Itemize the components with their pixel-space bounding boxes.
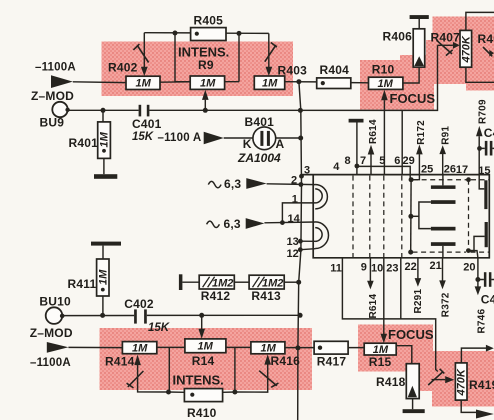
resistor R401 1M xyxy=(98,110,111,174)
svg-text:470K: 470K xyxy=(460,35,472,63)
svg-text:R402: R402 xyxy=(108,61,138,75)
wire R405 top link xyxy=(144,32,268,35)
svg-text:R406: R406 xyxy=(383,30,413,44)
wire R416 to R417 xyxy=(285,347,314,349)
electrode dashed columns xyxy=(353,176,402,257)
node pin 3 entry xyxy=(299,174,304,179)
potentiometer R10 focus xyxy=(369,77,403,174)
node B401 anode xyxy=(298,136,303,141)
wire R404 to R10 xyxy=(351,82,369,84)
node heater 6,3 arrow 1 xyxy=(208,178,266,189)
svg-text:R413: R413 xyxy=(251,289,281,303)
svg-text:1M2: 1M2 xyxy=(212,278,233,290)
wire main vertical xyxy=(298,82,302,420)
svg-text:INTENS.: INTENS. xyxy=(173,372,224,387)
svg-text:C4: C4 xyxy=(481,292,494,306)
svg-text:14: 14 xyxy=(288,213,301,225)
svg-text:R15: R15 xyxy=(369,355,392,369)
electrode bar pin 15 xyxy=(479,175,487,210)
node pin1-14 junction xyxy=(280,220,285,225)
svg-text:R407: R407 xyxy=(431,31,461,45)
svg-text:R401: R401 xyxy=(69,136,99,150)
svg-text:R410: R410 xyxy=(187,406,217,420)
svg-text:R614: R614 xyxy=(368,119,379,144)
net R172 arrow pin 25 xyxy=(411,145,423,180)
svg-text:13: 13 xyxy=(287,236,299,248)
terminal bar above R411 xyxy=(91,242,121,259)
resistor R416 (trimmer 1M) xyxy=(235,342,285,392)
svg-text:21: 21 xyxy=(430,260,442,272)
wire R402 to R9 xyxy=(160,81,190,83)
node R403 junction xyxy=(296,79,301,84)
terminal bar pin 8 xyxy=(349,119,364,175)
svg-text:R9: R9 xyxy=(198,58,214,72)
svg-text:1M: 1M xyxy=(97,269,109,285)
svg-text:R417: R417 xyxy=(317,355,347,369)
connector BU9 xyxy=(52,102,70,117)
svg-text:11: 11 xyxy=(330,262,342,274)
svg-text:Z–MOD: Z–MOD xyxy=(31,89,74,103)
wire pin 20 exit xyxy=(468,251,478,258)
svg-text:R709: R709 xyxy=(477,99,488,124)
wire R10 right to R406 xyxy=(403,67,419,83)
svg-text:1M: 1M xyxy=(136,78,152,90)
node -1100A bottom arrow xyxy=(47,342,69,353)
shield dashed vertical pin 17 xyxy=(468,180,470,251)
svg-text:15K: 15K xyxy=(132,131,154,143)
resistor R414 (trimmer 1M) xyxy=(122,342,168,392)
svg-text:BU9: BU9 xyxy=(40,116,65,130)
capacitor C401 xyxy=(139,105,150,117)
resistor R403 (trimmer 1M) xyxy=(254,33,284,89)
svg-text:R416: R416 xyxy=(271,354,301,368)
svg-text:6,3: 6,3 xyxy=(224,177,241,191)
svg-text:2: 2 xyxy=(291,175,297,187)
svg-text:R91: R91 xyxy=(441,126,452,145)
wire node A drop xyxy=(175,33,190,82)
svg-text:R614: R614 xyxy=(368,294,379,319)
ground below R401 xyxy=(94,174,117,179)
net R614 top arrow xyxy=(368,145,375,175)
svg-text:R418: R418 xyxy=(376,375,406,389)
svg-text:ZA1004: ZA1004 xyxy=(237,151,281,165)
wire R403 to R404 xyxy=(285,81,317,83)
node A junction xyxy=(173,31,178,36)
svg-text:1M: 1M xyxy=(198,341,214,353)
wire z-mod bus bottom xyxy=(62,314,300,316)
svg-text:R10: R10 xyxy=(372,63,395,77)
resistor R406 (preset) xyxy=(410,15,429,67)
svg-text:R40: R40 xyxy=(478,32,494,46)
potentiometer R9 xyxy=(190,76,224,110)
connector BU10 xyxy=(46,307,65,324)
svg-text:R411: R411 xyxy=(68,277,97,291)
svg-text:R172: R172 xyxy=(416,120,427,145)
svg-text:–1100A: –1100A xyxy=(35,62,76,74)
CRT tube V1 outline xyxy=(302,175,489,258)
svg-text:B401: B401 xyxy=(245,115,275,129)
svg-text:C401: C401 xyxy=(132,117,162,131)
potentiometer R14 xyxy=(185,315,226,352)
highlight block focus top xyxy=(360,60,434,110)
node bus junction R401 xyxy=(101,108,106,113)
highlight block intensity top xyxy=(102,42,294,97)
capacitor C4xx top right xyxy=(480,141,494,156)
svg-text:–1100 A: –1100 A xyxy=(158,132,202,144)
svg-text:10: 10 xyxy=(371,262,383,274)
lamp B401 ZA1004 xyxy=(253,127,276,150)
wire plate common vertical xyxy=(410,180,412,252)
svg-text:15K: 15K xyxy=(148,322,170,334)
shield dashed row bottom xyxy=(413,251,489,253)
cathode heater arcs top xyxy=(315,185,327,209)
svg-text:1M: 1M xyxy=(373,344,389,356)
svg-text:6: 6 xyxy=(394,155,400,167)
svg-text:K: K xyxy=(243,137,252,151)
capacitor C402 xyxy=(134,309,147,323)
resistor R410 xyxy=(169,389,235,402)
svg-text:1: 1 xyxy=(292,194,298,206)
potentiometer R15 focus xyxy=(364,343,396,355)
svg-text:470K: 470K xyxy=(456,368,468,396)
svg-text:C4: C4 xyxy=(484,126,494,140)
highlight block focus bottom xyxy=(358,325,433,372)
wire pins 11-22 link xyxy=(342,258,437,372)
shield dashed row top xyxy=(413,179,489,181)
cathode heater arcs bottom xyxy=(315,222,328,249)
svg-text:A: A xyxy=(276,137,285,151)
deflection plate pair 1 xyxy=(411,175,456,229)
svg-text:4: 4 xyxy=(333,161,340,173)
svg-text:R419: R419 xyxy=(469,378,494,392)
svg-text:1M: 1M xyxy=(261,343,277,355)
svg-text:1M: 1M xyxy=(132,343,148,355)
svg-text:29: 29 xyxy=(403,155,415,167)
wire -1100A to R402 xyxy=(73,81,126,84)
resistor R419 (trimmer 470K) xyxy=(428,345,494,419)
svg-text:R412: R412 xyxy=(201,289,231,303)
svg-text:12: 12 xyxy=(287,248,299,260)
wire pin 6-29 xyxy=(401,110,403,174)
wire junction right drop xyxy=(234,347,236,392)
svg-text:FOCUS: FOCUS xyxy=(390,91,436,106)
wire to B401 xyxy=(224,137,253,139)
resistor R408 partial xyxy=(483,47,494,57)
svg-text:17: 17 xyxy=(456,164,468,176)
wire z-mod bus top xyxy=(68,45,438,110)
svg-text:7: 7 xyxy=(360,155,366,167)
svg-text:R403: R403 xyxy=(278,64,308,78)
svg-text:5: 5 xyxy=(379,155,385,167)
svg-text:R404: R404 xyxy=(320,63,350,77)
resistor R405 xyxy=(191,28,226,41)
node heater 6,3 arrow 2 xyxy=(207,218,265,229)
net R709 arrow pin 15 xyxy=(476,126,483,175)
node bus junction main vertical xyxy=(298,108,303,113)
highlight block top right xyxy=(433,17,494,85)
svg-text:25: 25 xyxy=(421,164,433,176)
net R91 arrow pin 26 xyxy=(439,145,446,174)
wire node B drop xyxy=(225,33,239,81)
deflection plate pair 2 xyxy=(431,227,456,258)
resistor R411 1M xyxy=(97,259,109,315)
wire pin 13 xyxy=(300,240,315,242)
svg-text:3: 3 xyxy=(304,165,310,177)
wire R14 to R416 xyxy=(226,346,251,348)
svg-text:R14: R14 xyxy=(192,354,215,368)
svg-text:R405: R405 xyxy=(194,14,224,28)
svg-text:Z–MOD: Z–MOD xyxy=(30,326,73,340)
highlight block bottom right xyxy=(432,351,494,407)
node pin2 junction xyxy=(299,182,304,187)
svg-text:C402: C402 xyxy=(124,297,154,311)
resistor R413 1M2 xyxy=(249,275,301,289)
svg-text:1M: 1M xyxy=(200,77,216,89)
net R746 pin 20 with capacitor xyxy=(475,258,494,295)
svg-text:15: 15 xyxy=(478,165,490,177)
svg-text:FOCUS: FOCUS xyxy=(388,327,434,342)
resistor R402 (trimmer 1M) xyxy=(126,33,160,90)
svg-text:R414: R414 xyxy=(105,354,135,368)
wire heater pin 14 xyxy=(264,221,315,224)
resistor R412 1M2 xyxy=(179,274,234,290)
svg-text:23: 23 xyxy=(386,262,398,274)
wire junction left drop xyxy=(168,347,170,392)
resistor R407 (trimmer 470K) xyxy=(437,12,494,82)
svg-text:–1100A: –1100A xyxy=(30,357,71,369)
node B junction xyxy=(237,31,242,36)
svg-text:1M: 1M xyxy=(378,78,394,90)
wire heater pin 1 xyxy=(282,203,315,223)
wire grid link row xyxy=(357,166,410,179)
electrode bar pin 20 xyxy=(466,222,488,253)
wire heater pin 2 xyxy=(267,183,316,186)
svg-text:1M: 1M xyxy=(99,131,111,147)
wire R412 to R413 xyxy=(234,281,249,283)
net R372 arrow pin 21 xyxy=(439,258,446,289)
svg-text:R372: R372 xyxy=(440,292,451,317)
svg-text:20: 20 xyxy=(463,262,475,274)
highlight block intensity bottom xyxy=(100,328,313,390)
wire pin 12 xyxy=(300,249,315,250)
wire to R414 xyxy=(68,346,122,348)
resistor R404 xyxy=(317,78,351,89)
net R614 bottom arrow pin 10 xyxy=(367,258,374,290)
svg-text:1M2: 1M2 xyxy=(262,278,283,290)
svg-text:26: 26 xyxy=(444,164,456,176)
node -1100A top arrow xyxy=(51,75,73,88)
wire R414 to R14 xyxy=(157,346,185,348)
svg-text:R291: R291 xyxy=(413,289,424,314)
node -1100A mid arrow xyxy=(204,132,224,144)
wire B401 to main vertical xyxy=(276,137,301,139)
svg-text:6,3: 6,3 xyxy=(224,217,241,231)
net R291 arrow pin 22 xyxy=(415,258,422,287)
wire R15 to R418 xyxy=(396,346,412,364)
svg-text:9: 9 xyxy=(361,262,367,274)
wire pin 23 to focus R15 xyxy=(381,258,388,344)
resistor R418 (preset) xyxy=(406,364,419,410)
resistor R417 xyxy=(314,341,348,354)
svg-text:1M: 1M xyxy=(262,77,278,89)
node bus junction R9 wiper xyxy=(203,108,208,113)
svg-text:8: 8 xyxy=(345,155,351,167)
ground below R418 xyxy=(403,409,425,413)
svg-text:BU10: BU10 xyxy=(39,295,71,309)
svg-text:R746: R746 xyxy=(477,309,488,334)
svg-text:22: 22 xyxy=(405,261,417,273)
wire R417 to R15 xyxy=(348,347,364,349)
